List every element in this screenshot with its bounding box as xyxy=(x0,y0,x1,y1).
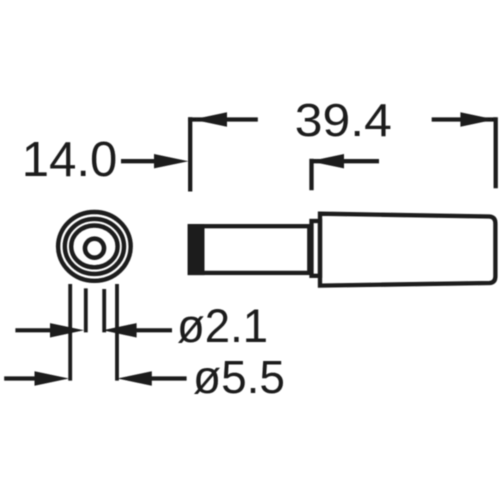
body (handle) xyxy=(320,214,495,286)
ext line outer-left xyxy=(68,284,72,381)
bottom dimension extension lines xyxy=(70,284,117,381)
barrel black tip xyxy=(188,224,205,275)
extension line right (body end) xyxy=(494,117,498,188)
extension line middle (barrel/collar joint) xyxy=(309,159,313,190)
dim line 14.0 right tail xyxy=(312,159,380,163)
barrel outline xyxy=(190,226,309,273)
svg-text:14.0: 14.0 xyxy=(22,132,118,187)
center pin hole xyxy=(85,239,104,258)
extension line left (barrel tip) xyxy=(188,117,192,191)
front view concentric rings xyxy=(58,212,131,281)
outer ring xyxy=(58,212,131,281)
arrow o5.5 left (points right) xyxy=(35,371,70,385)
dim line o2.1 right xyxy=(136,328,172,332)
dim line 39.4 left segment xyxy=(188,117,258,121)
second ring xyxy=(65,219,124,274)
svg-text:ø5.5: ø5.5 xyxy=(193,351,285,403)
arrow o2.1 left (points right) xyxy=(50,323,84,337)
arrow 39.4 left (points left) xyxy=(193,112,227,126)
collar xyxy=(312,221,321,276)
dim line o5.5 left xyxy=(4,376,36,380)
arrow 14.0 right (points left) xyxy=(310,154,344,168)
ext line inner-right xyxy=(102,289,106,332)
dim line 39.4 right segment xyxy=(432,117,496,121)
dim line 14.0 left xyxy=(121,159,156,163)
arrow o5.5 right (points left) xyxy=(117,371,152,385)
dim line o2.1 left xyxy=(15,328,52,332)
ext line inner-left xyxy=(84,288,88,332)
arrow 14.0 left (points right) xyxy=(154,154,189,168)
svg-text:ø2.1: ø2.1 xyxy=(177,299,268,352)
third ring xyxy=(71,226,117,268)
side view of plug xyxy=(188,214,496,286)
arrow o2.1 right (points left) xyxy=(103,323,137,337)
arrow 39.4 right (points right) xyxy=(460,112,494,126)
svg-text:39.4: 39.4 xyxy=(295,94,392,146)
ext line outer-right xyxy=(115,284,119,381)
dim line o5.5 right xyxy=(151,376,187,380)
